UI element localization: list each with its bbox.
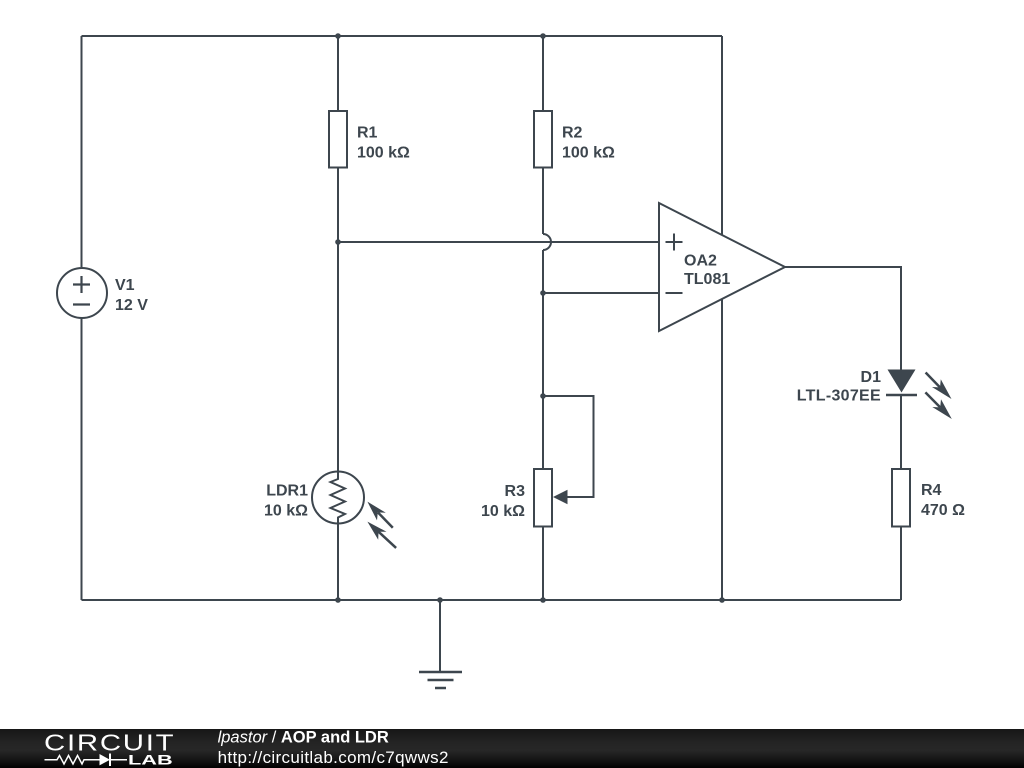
svg-text:lpastor / AOP and LDR: lpastor / AOP and LDR xyxy=(218,728,389,746)
svg-text:R3: R3 xyxy=(505,483,526,500)
voltage source V1 xyxy=(57,268,107,318)
LED light arrow 2 xyxy=(925,392,951,419)
svg-text:10 kΩ: 10 kΩ xyxy=(481,503,525,520)
wire R2 bottom lead xyxy=(542,169,544,235)
svg-text:R2: R2 xyxy=(562,125,583,142)
node bottom rail ground xyxy=(437,597,443,603)
LED D1 triangle xyxy=(888,370,916,393)
wire R2 top lead xyxy=(542,36,544,110)
footer bar xyxy=(0,729,1024,768)
svg-text:470 Ω: 470 Ω xyxy=(921,502,965,519)
node top rail R1 xyxy=(335,33,341,39)
svg-text:OA2: OA2 xyxy=(684,253,717,270)
wire noninverting input xyxy=(338,241,659,243)
svg-text:10 kΩ: 10 kΩ xyxy=(264,503,308,520)
wire LED to R4 xyxy=(900,396,902,469)
potentiometer R3 body xyxy=(534,469,552,527)
wire R3 wiper loop xyxy=(543,396,594,497)
LED D1 cathode bar xyxy=(886,394,917,397)
svg-text:100 kΩ: 100 kΩ xyxy=(562,145,615,162)
op-amp OA2 body xyxy=(659,203,785,331)
footer logo resistor-diode line xyxy=(45,754,128,767)
wire top rail xyxy=(82,35,723,37)
svg-text:LDR1: LDR1 xyxy=(266,483,308,500)
svg-text:D1: D1 xyxy=(861,369,882,386)
svg-text:TL081: TL081 xyxy=(684,271,730,288)
svg-text:LAB: LAB xyxy=(128,752,173,768)
node top rail R2 xyxy=(540,33,546,39)
svg-text:R4: R4 xyxy=(921,482,942,499)
wire op-amp output to LED xyxy=(785,267,901,370)
svg-text:R1: R1 xyxy=(357,125,378,142)
wire R4 bottom lead xyxy=(900,528,902,601)
svg-text:100 kΩ: 100 kΩ xyxy=(357,145,410,162)
node bottom rail supply xyxy=(719,597,725,603)
resistor R4 xyxy=(892,469,910,527)
wire R2 to R3 xyxy=(542,250,544,468)
wire ground stub xyxy=(439,600,441,672)
LED light arrow 1 xyxy=(926,373,952,400)
LDR1 light arrow 2 xyxy=(367,522,396,548)
node R3 wiper junction xyxy=(540,393,546,399)
ground symbol xyxy=(419,672,462,688)
svg-text:V1: V1 xyxy=(115,277,135,294)
wire inverting input xyxy=(543,292,659,294)
wire right supply column xyxy=(721,36,723,600)
node inverting junction xyxy=(540,290,546,296)
footer logo diode triangle xyxy=(100,754,111,765)
wire R1 top lead xyxy=(337,36,339,110)
op-amp plus input marking xyxy=(666,234,683,251)
wire bottom rail xyxy=(82,599,902,601)
LDR1 light arrow 1 xyxy=(367,502,392,528)
svg-text:http://circuitlab.com/c7qwws2: http://circuitlab.com/c7qwws2 xyxy=(218,748,449,767)
photoresistor LDR1 xyxy=(312,472,364,524)
wire hop over noninverting input xyxy=(543,234,551,250)
op-amp minus input marking xyxy=(666,292,683,294)
svg-text:LTL-307EE: LTL-307EE xyxy=(797,388,881,405)
wire R1 bottom to LDR1 xyxy=(337,169,339,472)
wire LDR1 bottom lead xyxy=(337,524,339,601)
resistor R1 xyxy=(329,111,347,168)
node bottom rail R3 xyxy=(540,597,546,603)
node bottom rail LDR1 xyxy=(335,597,341,603)
wire V1 bottom lead xyxy=(81,318,83,600)
node noninverting junction xyxy=(335,239,341,245)
potentiometer R3 wiper arrow xyxy=(553,490,568,504)
wire V1 top lead xyxy=(81,36,83,267)
wire R3 bottom lead xyxy=(542,528,544,601)
resistor R2 xyxy=(534,111,552,168)
svg-text:12 V: 12 V xyxy=(115,297,148,314)
